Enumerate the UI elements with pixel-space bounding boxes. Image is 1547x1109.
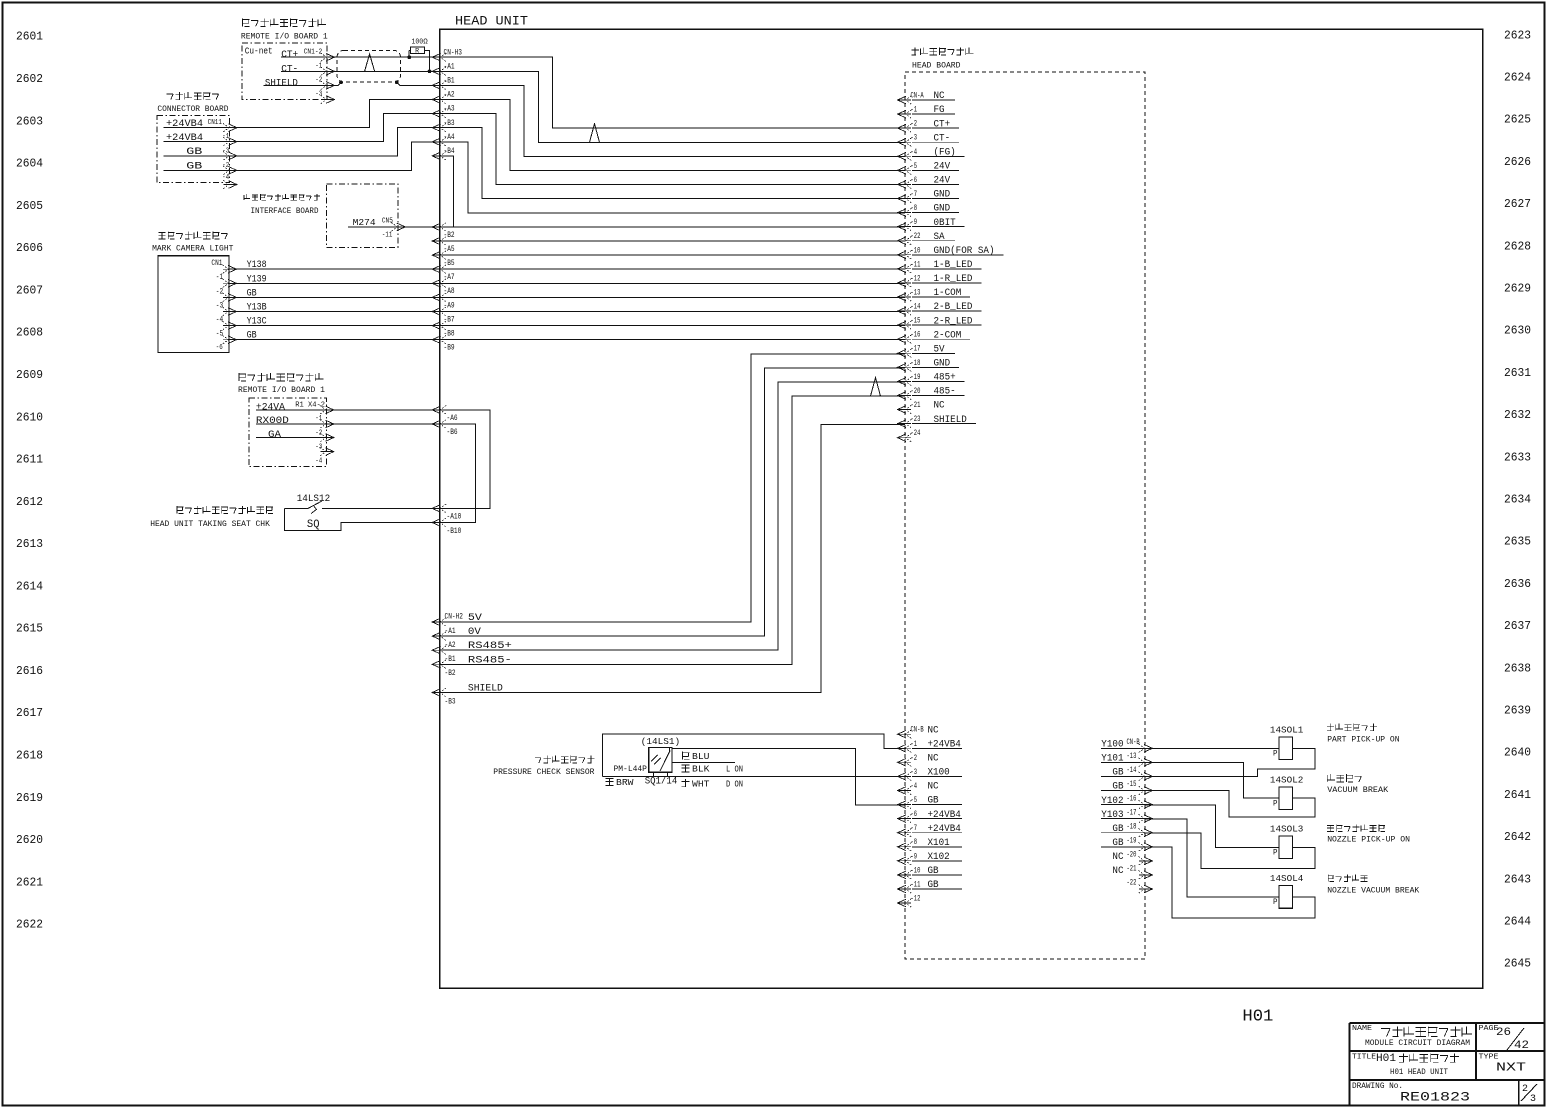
svg-text:2629: 2629: [1504, 283, 1531, 296]
svg-text:-13: -13: [911, 289, 921, 298]
svg-text:-4: -4: [911, 782, 918, 791]
svg-text:NC: NC: [1112, 865, 1123, 877]
svg-text:14LS12: 14LS12: [297, 493, 331, 505]
svg-text:-1: -1: [911, 740, 918, 749]
svg-text:GB: GB: [928, 879, 939, 891]
svg-text:1-B_LED: 1-B_LED: [934, 259, 973, 271]
svg-text:-2: -2: [911, 754, 918, 763]
svg-text:-B1: -B1: [444, 77, 455, 86]
svg-text:2645: 2645: [1504, 958, 1531, 971]
svg-text:-16: -16: [911, 331, 921, 340]
svg-text:-B3: -B3: [445, 697, 456, 706]
svg-text:2605: 2605: [16, 200, 43, 213]
svg-text:-1: -1: [911, 106, 918, 115]
svg-text:2618: 2618: [16, 750, 43, 763]
svg-text:CN-H2: CN-H2: [445, 613, 464, 622]
svg-text:2606: 2606: [16, 242, 43, 255]
svg-text:Ω: Ω: [423, 38, 428, 46]
svg-text:2641: 2641: [1504, 789, 1531, 802]
svg-text:2615: 2615: [16, 623, 43, 636]
svg-text:-17: -17: [911, 345, 921, 354]
svg-text:FG: FG: [934, 104, 945, 116]
svg-text:2609: 2609: [16, 369, 43, 382]
svg-text:P: P: [1273, 749, 1278, 758]
svg-text:L ON: L ON: [726, 763, 743, 774]
svg-text:CN-B: CN-B: [1127, 738, 1140, 747]
svg-text:R1 X4-2: R1 X4-2: [295, 401, 325, 409]
svg-text:2642: 2642: [1504, 831, 1531, 844]
svg-text:2620: 2620: [16, 834, 43, 847]
svg-text:-B2: -B2: [444, 231, 455, 240]
svg-text:-22: -22: [911, 232, 921, 241]
svg-text:2621: 2621: [16, 876, 43, 889]
svg-text:GND: GND: [934, 189, 951, 201]
svg-text:-A8: -A8: [444, 287, 455, 296]
svg-text:-5: -5: [911, 162, 918, 171]
svg-text:-18: -18: [911, 359, 921, 368]
svg-text:CT-: CT-: [934, 132, 951, 144]
svg-text:-19: -19: [911, 373, 921, 382]
svg-text:VACUUM BREAK: VACUUM BREAK: [1327, 785, 1389, 795]
svg-text:14SOL3: 14SOL3: [1270, 825, 1304, 835]
svg-text:2635: 2635: [1504, 536, 1531, 549]
svg-text:-B9: -B9: [444, 344, 455, 353]
svg-text:NC: NC: [934, 90, 945, 102]
svg-text:M274: M274: [353, 217, 376, 228]
svg-text:D ON: D ON: [726, 778, 743, 789]
svg-text:(FG): (FG): [934, 147, 956, 159]
svg-text:-5: -5: [216, 330, 224, 339]
svg-text:HEAD UNIT: HEAD UNIT: [455, 13, 528, 28]
svg-text:-7: -7: [911, 190, 918, 199]
svg-text:-11: -11: [911, 260, 921, 269]
svg-text:2-COM: 2-COM: [934, 329, 962, 341]
svg-text:24V: 24V: [934, 161, 951, 173]
svg-text:-11: -11: [911, 881, 921, 890]
svg-text:REMOTE I/O BOARD 1: REMOTE I/O BOARD 1: [238, 385, 325, 395]
svg-text:PM-L44P: PM-L44P: [614, 765, 648, 774]
svg-text:GND: GND: [934, 203, 951, 215]
svg-text:-15: -15: [1127, 780, 1137, 789]
svg-text:GA: GA: [268, 429, 282, 441]
svg-text:GB: GB: [1112, 837, 1123, 849]
svg-text:3: 3: [1530, 1094, 1536, 1105]
svg-text:2607: 2607: [16, 284, 43, 297]
svg-text:PRESSURE CHECK SENSOR: PRESSURE CHECK SENSOR: [493, 767, 594, 777]
svg-text:-B5: -B5: [444, 259, 455, 268]
svg-text:P: P: [1273, 898, 1278, 907]
svg-text:-10: -10: [911, 866, 921, 875]
svg-text:-2: -2: [216, 287, 224, 296]
svg-text:INTERFACE BOARD: INTERFACE BOARD: [251, 206, 319, 216]
svg-text:CT-: CT-: [281, 63, 298, 75]
svg-text:2644: 2644: [1504, 916, 1531, 929]
svg-text:CT+: CT+: [281, 49, 298, 61]
svg-text:5V: 5V: [934, 343, 946, 355]
svg-text:-A5: -A5: [444, 245, 455, 254]
svg-text:TITLE: TITLE: [1352, 1054, 1377, 1062]
svg-text:HEAD BOARD: HEAD BOARD: [912, 60, 961, 70]
svg-text:1-R_LED: 1-R_LED: [934, 273, 973, 285]
svg-text:BLU: BLU: [692, 751, 710, 762]
svg-text:-6: -6: [911, 176, 918, 185]
svg-text:-B3: -B3: [444, 119, 455, 128]
svg-text:GND(FOR SA): GND(FOR SA): [934, 245, 995, 257]
svg-text:2627: 2627: [1504, 198, 1531, 211]
svg-text:RE01823: RE01823: [1400, 1091, 1470, 1105]
svg-text:+24VB4: +24VB4: [928, 739, 961, 751]
svg-text:-B10: -B10: [447, 527, 462, 536]
svg-text:NC: NC: [934, 400, 945, 412]
svg-text:NC: NC: [1112, 851, 1123, 863]
svg-text:-15: -15: [911, 317, 921, 326]
svg-text:-3: -3: [315, 443, 322, 451]
svg-text:2612: 2612: [16, 496, 43, 509]
svg-text:2610: 2610: [16, 411, 43, 424]
svg-text:CN5: CN5: [382, 218, 393, 226]
svg-text:-9: -9: [911, 218, 918, 227]
svg-text:+24VB4: +24VB4: [928, 823, 961, 835]
svg-text:NC: NC: [928, 781, 939, 793]
svg-text:2614: 2614: [16, 580, 43, 593]
svg-text:2637: 2637: [1504, 620, 1531, 633]
svg-text:CN11: CN11: [208, 119, 223, 127]
svg-text:PART PICK-UP ON: PART PICK-UP ON: [1327, 734, 1399, 744]
svg-text:-14: -14: [911, 303, 921, 312]
svg-text:GB: GB: [1112, 767, 1123, 779]
svg-text:-A10: -A10: [447, 513, 462, 522]
svg-text:-13: -13: [1127, 752, 1137, 761]
svg-text:RX00D: RX00D: [256, 415, 289, 427]
svg-text:CN-A: CN-A: [911, 92, 924, 101]
svg-text:CN1: CN1: [211, 259, 222, 268]
svg-text:2625: 2625: [1504, 114, 1531, 127]
svg-text:2633: 2633: [1504, 451, 1531, 464]
svg-text:Y103: Y103: [1101, 809, 1123, 821]
svg-text:-B8: -B8: [444, 330, 455, 339]
svg-text:Y102: Y102: [1101, 795, 1123, 807]
svg-text:-4: -4: [315, 458, 322, 466]
svg-text:2626: 2626: [1504, 156, 1531, 169]
svg-text:BRW: BRW: [616, 777, 634, 788]
svg-text:2: 2: [1522, 1084, 1528, 1095]
svg-text:2608: 2608: [16, 327, 43, 340]
svg-text:2622: 2622: [16, 919, 43, 932]
svg-text:-3: -3: [911, 134, 918, 143]
svg-text:SQ: SQ: [307, 519, 320, 531]
svg-text:-19: -19: [1127, 837, 1137, 846]
svg-text:CT+: CT+: [934, 118, 951, 130]
svg-text:2643: 2643: [1504, 873, 1531, 886]
svg-text:1-COM: 1-COM: [934, 287, 962, 299]
svg-text:HEAD UNIT TAKING SEAT CHK: HEAD UNIT TAKING SEAT CHK: [150, 519, 271, 529]
svg-text:-3: -3: [911, 768, 918, 777]
svg-text:-6: -6: [216, 344, 223, 352]
svg-text:2603: 2603: [16, 115, 43, 128]
svg-text:WHT: WHT: [692, 778, 710, 789]
svg-text:-1: -1: [315, 415, 322, 423]
svg-text:26: 26: [1496, 1027, 1511, 1039]
svg-text:-21: -21: [1127, 865, 1137, 874]
svg-text:-B1: -B1: [445, 655, 456, 664]
svg-text:-10: -10: [911, 246, 921, 255]
svg-text:14SOL1: 14SOL1: [1270, 726, 1304, 736]
svg-text:-A9: -A9: [444, 301, 455, 310]
svg-text:-A2: -A2: [445, 641, 456, 650]
svg-text:CN1-2: CN1-2: [304, 48, 323, 56]
svg-text:NAME: NAME: [1352, 1025, 1373, 1033]
svg-text:2634: 2634: [1504, 494, 1531, 507]
svg-text:H01 HEAD UNIT: H01 HEAD UNIT: [1390, 1067, 1448, 1077]
svg-text:SHIELD: SHIELD: [265, 77, 298, 89]
svg-text:-8: -8: [911, 838, 918, 847]
svg-text:(14LS1): (14LS1): [641, 736, 680, 747]
svg-text:MARK CAMERA LIGHT: MARK CAMERA LIGHT: [152, 244, 233, 254]
svg-text:X100: X100: [928, 767, 950, 779]
svg-text:P: P: [1273, 799, 1278, 808]
svg-text:2638: 2638: [1504, 662, 1531, 675]
svg-text:NOZZLE VACUUM BREAK: NOZZLE VACUUM BREAK: [1327, 885, 1420, 895]
svg-text:2636: 2636: [1504, 578, 1531, 591]
svg-text:-23: -23: [911, 415, 921, 424]
svg-text:-A3: -A3: [444, 105, 455, 114]
svg-text:CN-B: CN-B: [911, 726, 924, 735]
svg-text:SA: SA: [934, 231, 946, 243]
svg-text:-9: -9: [911, 852, 918, 861]
svg-text:2623: 2623: [1504, 29, 1531, 42]
svg-text:2639: 2639: [1504, 705, 1531, 718]
svg-text:2631: 2631: [1504, 367, 1531, 380]
svg-text:-B4: -B4: [444, 147, 455, 156]
svg-text:DRAWING No.: DRAWING No.: [1352, 1081, 1403, 1091]
svg-text:REMOTE I/O BOARD 1: REMOTE I/O BOARD 1: [241, 31, 328, 41]
svg-text:H01: H01: [1376, 1053, 1396, 1065]
svg-text:-1: -1: [315, 62, 322, 70]
svg-text:+24VA: +24VA: [256, 402, 286, 414]
svg-text:NC: NC: [928, 753, 939, 765]
svg-text:-21: -21: [911, 401, 921, 410]
svg-text:BLK: BLK: [692, 763, 710, 774]
svg-text:-24: -24: [911, 429, 921, 438]
svg-text:-2: -2: [911, 120, 918, 129]
svg-text:2632: 2632: [1504, 409, 1531, 422]
svg-text:-7: -7: [911, 824, 918, 833]
svg-text:X102: X102: [928, 851, 950, 863]
svg-text:-11: -11: [382, 232, 393, 240]
svg-text:2628: 2628: [1504, 240, 1531, 253]
svg-text:NOZZLE PICK-UP ON: NOZZLE PICK-UP ON: [1327, 834, 1410, 844]
svg-text:CN-H3: CN-H3: [444, 48, 463, 57]
svg-text:-2: -2: [315, 77, 322, 85]
svg-text:-3: -3: [315, 91, 322, 99]
svg-text:-A1: -A1: [445, 627, 456, 636]
svg-text:2-B_LED: 2-B_LED: [934, 301, 973, 313]
svg-text:485+: 485+: [934, 372, 956, 384]
svg-text:485-: 485-: [934, 386, 956, 398]
svg-text:GB: GB: [928, 795, 939, 807]
svg-text:GND: GND: [934, 358, 951, 370]
svg-text:2613: 2613: [16, 538, 43, 551]
svg-text:-4: -4: [222, 174, 229, 182]
svg-text:-B2: -B2: [445, 669, 456, 678]
svg-text:-4: -4: [911, 148, 918, 157]
svg-text:GB: GB: [1112, 823, 1123, 835]
svg-text:SHIELD: SHIELD: [934, 414, 967, 426]
svg-text:+24VB4: +24VB4: [928, 809, 961, 821]
svg-text:Y100: Y100: [1101, 739, 1123, 751]
svg-text:NXT: NXT: [1496, 1061, 1526, 1075]
svg-text:-A6: -A6: [447, 414, 458, 423]
svg-text:NC: NC: [928, 724, 939, 736]
svg-text:2602: 2602: [16, 73, 43, 86]
svg-text:14SOL4: 14SOL4: [1270, 874, 1304, 884]
svg-text:X101: X101: [928, 837, 950, 849]
svg-text:-8: -8: [911, 204, 918, 213]
svg-text:MODULE CIRCUIT DIAGRAM: MODULE CIRCUIT DIAGRAM: [1365, 1038, 1470, 1048]
svg-text:-6: -6: [911, 810, 918, 819]
svg-text:-4: -4: [216, 316, 224, 325]
svg-text:GB: GB: [928, 865, 939, 877]
svg-text:-2: -2: [315, 429, 322, 437]
svg-text:GB: GB: [1112, 781, 1123, 793]
svg-text:2630: 2630: [1504, 325, 1531, 338]
svg-text:0BIT: 0BIT: [934, 217, 956, 229]
svg-text:-B7: -B7: [444, 315, 455, 324]
svg-text:Y101: Y101: [1101, 753, 1123, 765]
svg-text:2601: 2601: [16, 31, 43, 44]
svg-text:2616: 2616: [16, 665, 43, 678]
svg-text:-B6: -B6: [447, 428, 458, 437]
svg-text:2611: 2611: [16, 454, 43, 467]
svg-text:-3: -3: [216, 301, 224, 310]
svg-text:-A2: -A2: [444, 91, 455, 100]
svg-text:2640: 2640: [1504, 747, 1531, 760]
svg-text:-16: -16: [1127, 794, 1137, 803]
svg-text:-18: -18: [1127, 822, 1137, 831]
svg-text:2619: 2619: [16, 792, 43, 805]
svg-text:24V: 24V: [934, 175, 951, 187]
svg-text:42: 42: [1514, 1040, 1529, 1052]
svg-text:R: R: [415, 48, 419, 55]
svg-text:2604: 2604: [16, 158, 43, 171]
svg-text:CONNECTOR BOARD: CONNECTOR BOARD: [157, 104, 228, 114]
svg-text:-5: -5: [911, 796, 918, 805]
svg-text:14SOL2: 14SOL2: [1270, 776, 1304, 786]
svg-text:-20: -20: [911, 387, 921, 396]
svg-text:-17: -17: [1127, 808, 1137, 817]
svg-text:100: 100: [412, 38, 424, 46]
svg-text:-A4: -A4: [444, 133, 455, 142]
svg-text:-A1: -A1: [444, 62, 455, 71]
svg-text:-1: -1: [216, 273, 224, 282]
svg-text:-20: -20: [1127, 851, 1137, 860]
svg-text:H01: H01: [1242, 1008, 1273, 1027]
svg-text:2617: 2617: [16, 707, 43, 720]
svg-text:P: P: [1273, 848, 1278, 857]
svg-text:-14: -14: [1127, 766, 1137, 775]
svg-text:-A7: -A7: [444, 273, 455, 282]
svg-text:-22: -22: [1127, 879, 1137, 888]
svg-text:Cu-net: Cu-net: [245, 47, 273, 57]
svg-text:-12: -12: [911, 895, 921, 904]
svg-text:2-R_LED: 2-R_LED: [934, 315, 973, 327]
svg-text:2624: 2624: [1504, 72, 1531, 85]
svg-text:-12: -12: [911, 274, 921, 283]
